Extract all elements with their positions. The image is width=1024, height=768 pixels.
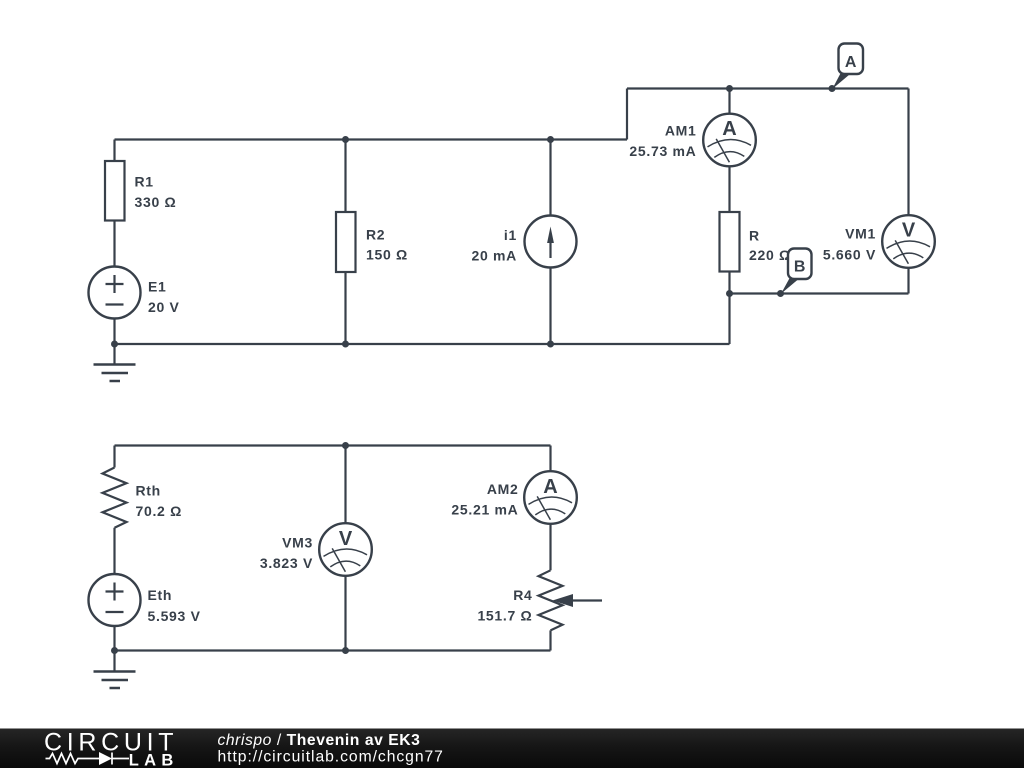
wire AM2 to R4 — [549, 524, 551, 571]
wire ground stem — [113, 344, 115, 365]
junction top bus R2 — [342, 136, 349, 143]
ground — [94, 365, 136, 382]
svg-text:25.73 mA: 25.73 mA — [629, 143, 696, 159]
wire lower bottom bus — [115, 649, 551, 651]
svg-text:20 mA: 20 mA — [471, 247, 517, 263]
wire VM3 top lead — [344, 446, 346, 524]
svg-text:E1: E1 — [148, 279, 167, 295]
svg-text:V: V — [902, 220, 916, 242]
wire VM1 bottom lead — [907, 268, 909, 294]
wire lower top bus — [115, 444, 551, 446]
wire bottom bus — [115, 343, 730, 345]
potentiometer R4 — [539, 570, 603, 630]
svg-text:Rth: Rth — [136, 483, 161, 499]
wire R4 to bus — [549, 630, 551, 650]
junction bottom bus R2 — [342, 341, 349, 348]
resistor R1 — [105, 161, 125, 221]
svg-text:5.593 V: 5.593 V — [148, 608, 201, 624]
wire step up — [626, 89, 628, 140]
node B — [777, 249, 812, 298]
svg-text:B: B — [794, 259, 806, 276]
wire upper bus — [627, 87, 909, 89]
voltmeter VM1 — [882, 215, 935, 268]
label VM1 5.660V — [823, 226, 876, 263]
label AM2 25.21mA — [451, 481, 518, 518]
svg-text:70.2 Ω: 70.2 Ω — [136, 503, 183, 519]
svg-text:i1: i1 — [504, 227, 517, 243]
wire R bottom — [728, 272, 730, 294]
label E1 20V — [148, 279, 180, 316]
wire i1 bottom lead — [549, 268, 551, 345]
wire top bus — [115, 138, 628, 140]
junction upper bus AM1 — [726, 85, 733, 92]
wire R1 to E1 — [113, 221, 115, 267]
svg-text:V: V — [339, 528, 353, 550]
svg-text:R2: R2 — [366, 226, 385, 242]
svg-text:AM2: AM2 — [487, 481, 519, 497]
svg-text:VM1: VM1 — [845, 226, 876, 242]
svg-text:A: A — [845, 54, 857, 71]
svg-text:VM3: VM3 — [282, 535, 313, 551]
svg-text:R1: R1 — [135, 173, 154, 189]
wire lower ground stem — [113, 651, 115, 672]
label VM3 3.823V — [260, 535, 313, 572]
resistor R2 — [336, 212, 356, 272]
svg-text:20 V: 20 V — [148, 299, 180, 315]
label i1 20mA — [471, 227, 517, 263]
label R4 151.7Ω — [477, 587, 532, 624]
svg-text:5.660 V: 5.660 V — [823, 246, 876, 262]
junction bottom bus E1 — [111, 341, 118, 348]
svg-text:A: A — [722, 118, 736, 140]
svg-text:LAB: LAB — [129, 752, 174, 768]
junction mid bus R — [726, 290, 733, 297]
node A — [829, 44, 864, 93]
svg-text:R: R — [749, 228, 760, 244]
wire R2 bottom lead — [344, 272, 346, 344]
voltage source E1 — [89, 267, 141, 319]
wire left rail top — [113, 140, 115, 162]
label Rth 70.2Ω — [136, 483, 183, 520]
svg-text:chrispo / Thevenin av EK3: chrispo / Thevenin av EK3 — [218, 732, 421, 749]
wire lower left rail — [113, 446, 115, 468]
wire AM2 top lead — [549, 446, 551, 472]
CircuitLab logo symbol — [46, 753, 130, 765]
current source i1 — [525, 216, 577, 268]
junction top bus i1 — [547, 136, 554, 143]
svg-text:Eth: Eth — [148, 587, 173, 603]
svg-text:3.823 V: 3.823 V — [260, 555, 313, 571]
voltmeter VM3 — [319, 523, 372, 576]
junction bottom bus i1 — [547, 341, 554, 348]
svg-text:150 Ω: 150 Ω — [366, 246, 408, 262]
svg-text:http://circuitlab.com/chcgn77: http://circuitlab.com/chcgn77 — [218, 749, 444, 766]
label R2 150Ω — [366, 226, 408, 262]
ammeter AM1 — [703, 114, 756, 167]
junction lower top bus VM3 — [342, 442, 349, 449]
label R1 330Ω — [135, 173, 177, 210]
svg-text:AM1: AM1 — [665, 123, 697, 139]
wire AM1 top lead — [728, 89, 730, 114]
svg-text:A: A — [543, 476, 557, 498]
wire VM3 bottom lead — [344, 576, 346, 651]
wire mid-right bus — [730, 292, 909, 294]
wire R bottom to bus — [728, 294, 730, 345]
svg-text:220 Ω: 220 Ω — [749, 247, 791, 263]
label Eth 5.593V — [148, 587, 201, 624]
label AM1 25.73mA — [629, 123, 696, 160]
voltage source Eth — [89, 574, 141, 626]
wire Rth to Eth — [113, 528, 115, 574]
resistor R — [720, 212, 740, 272]
svg-text:330 Ω: 330 Ω — [135, 194, 177, 210]
wire AM1 to R — [728, 166, 730, 212]
wire Eth to bus — [113, 626, 115, 651]
ammeter AM2 — [524, 471, 577, 524]
wire i1 top lead — [549, 140, 551, 216]
resistor Rth — [103, 468, 127, 528]
svg-text:151.7 Ω: 151.7 Ω — [477, 608, 532, 624]
junction lower bottom bus Eth — [111, 647, 118, 654]
wire R2 top lead — [344, 140, 346, 213]
svg-text:R4: R4 — [513, 587, 532, 603]
wire VM1 top lead — [907, 89, 909, 216]
ground — [94, 672, 136, 689]
footer bar — [0, 729, 1024, 768]
junction lower bottom bus VM3 — [342, 647, 349, 654]
label R 220Ω — [749, 228, 791, 264]
svg-text:25.21 mA: 25.21 mA — [451, 502, 518, 518]
wire E1 to bus — [113, 319, 115, 345]
